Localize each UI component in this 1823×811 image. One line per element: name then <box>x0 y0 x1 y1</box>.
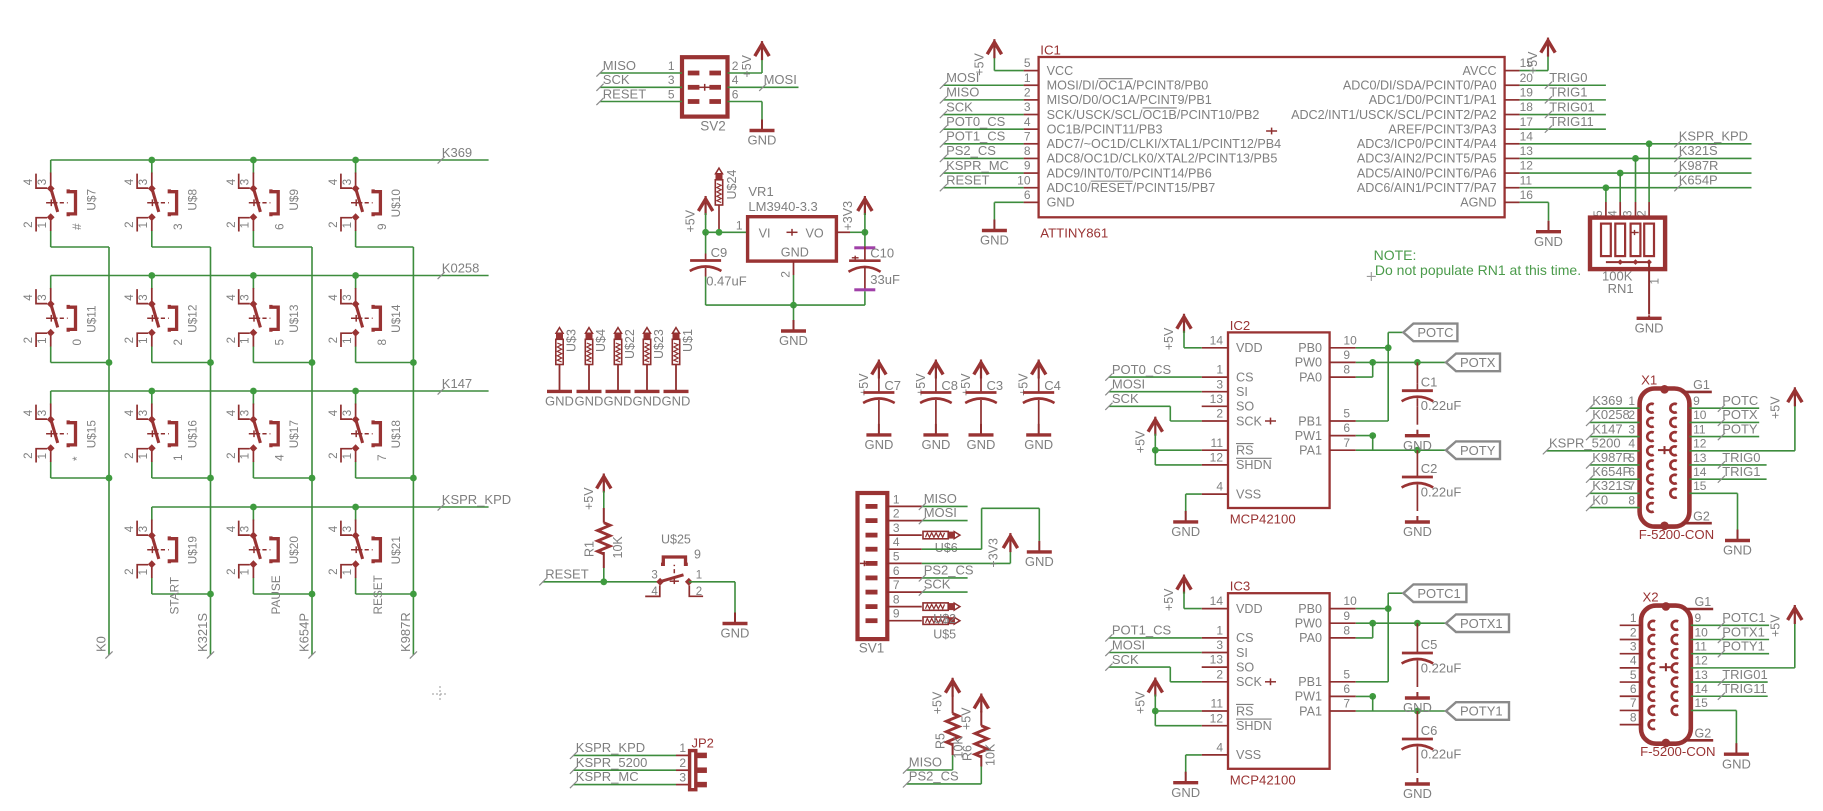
svg-text:+5V: +5V <box>931 691 945 714</box>
svg-text:U$13: U$13 <box>287 304 301 333</box>
svg-text:IC1: IC1 <box>1040 43 1061 58</box>
svg-text:GND: GND <box>1025 554 1054 569</box>
svg-text:14: 14 <box>1693 465 1707 479</box>
svg-text:TRIG11: TRIG11 <box>1549 114 1594 129</box>
svg-text:KSPR_5200: KSPR_5200 <box>576 755 648 770</box>
svg-text:6: 6 <box>893 564 900 578</box>
svg-text:1: 1 <box>668 59 675 73</box>
svg-text:9: 9 <box>375 223 389 230</box>
svg-text:6: 6 <box>1343 682 1350 696</box>
svg-text:SCK: SCK <box>1236 414 1262 428</box>
svg-text:8: 8 <box>1343 363 1350 377</box>
svg-text:ADC3/AIN2/PCINT5/PA5: ADC3/AIN2/PCINT5/PA5 <box>1357 152 1497 166</box>
svg-text:X1: X1 <box>1641 373 1657 388</box>
svg-text:GND: GND <box>781 245 809 259</box>
svg-text:+5V: +5V <box>684 209 698 232</box>
svg-text:X2: X2 <box>1643 590 1659 605</box>
svg-text:ADC6/AIN1/PCINT7/PA7: ADC6/AIN1/PCINT7/PA7 <box>1357 181 1497 195</box>
svg-text:TRIG01: TRIG01 <box>1549 99 1595 114</box>
svg-text:CS: CS <box>1236 370 1254 384</box>
svg-text:KSPR_MC: KSPR_MC <box>576 769 639 784</box>
svg-text:R1: R1 <box>583 541 597 557</box>
svg-text:8: 8 <box>893 593 900 607</box>
svg-text:PA1: PA1 <box>1299 444 1322 458</box>
svg-text:GND: GND <box>748 133 777 148</box>
svg-text:RESET: RESET <box>545 566 588 581</box>
svg-text:8: 8 <box>1343 624 1350 638</box>
svg-text:#: # <box>70 223 84 230</box>
svg-text:CS: CS <box>1236 631 1254 645</box>
svg-text:POT0_CS: POT0_CS <box>1112 362 1172 377</box>
svg-text:10K: 10K <box>611 536 625 559</box>
svg-text:ADC8/OC1D/CLK0/XTAL2/PCINT13/P: ADC8/OC1D/CLK0/XTAL2/PCINT13/PB5 <box>1047 152 1278 166</box>
svg-text:U$8: U$8 <box>185 189 199 211</box>
svg-text:PA0: PA0 <box>1299 370 1322 384</box>
svg-text:2: 2 <box>732 59 739 73</box>
svg-text:+5V: +5V <box>582 487 596 510</box>
svg-text:PW1: PW1 <box>1295 690 1322 704</box>
svg-text:VDD: VDD <box>1236 602 1263 616</box>
svg-text:+5V: +5V <box>1133 430 1147 453</box>
svg-text:TRIG0: TRIG0 <box>1549 70 1587 85</box>
svg-text:U$17: U$17 <box>287 420 301 448</box>
svg-text:K369: K369 <box>1592 393 1622 408</box>
svg-text:GND: GND <box>1047 196 1075 210</box>
svg-text:7: 7 <box>1630 696 1637 710</box>
svg-text:4: 4 <box>651 586 658 598</box>
svg-text:ATTINY861: ATTINY861 <box>1040 226 1108 241</box>
svg-text:PW1: PW1 <box>1295 429 1322 443</box>
svg-text:GND: GND <box>921 437 950 452</box>
svg-text:MOSI: MOSI <box>1112 637 1145 652</box>
svg-text:SCK: SCK <box>924 577 951 592</box>
svg-text:2: 2 <box>893 507 900 521</box>
svg-text:RESET: RESET <box>603 86 646 101</box>
svg-text:5: 5 <box>273 339 287 346</box>
svg-text:SCK/USCK/SCL/OC1B/PCINT10/PB2: SCK/USCK/SCL/OC1B/PCINT10/PB2 <box>1047 108 1260 122</box>
svg-text:KSPR_MC: KSPR_MC <box>946 158 1009 173</box>
svg-text:12: 12 <box>1520 159 1534 173</box>
svg-text:MOSI: MOSI <box>1112 377 1145 392</box>
svg-text:K369: K369 <box>442 145 472 160</box>
svg-text:TRIG0: TRIG0 <box>1722 450 1760 465</box>
svg-text:GND: GND <box>1534 234 1563 249</box>
svg-text:C10: C10 <box>870 246 894 261</box>
svg-text:C6: C6 <box>1421 723 1438 738</box>
svg-text:U$3: U$3 <box>565 329 579 352</box>
svg-text:10: 10 <box>1343 594 1357 608</box>
svg-text:PB1: PB1 <box>1298 414 1322 428</box>
svg-text:1: 1 <box>893 492 900 506</box>
svg-text:U$19: U$19 <box>185 536 199 564</box>
svg-text:1: 1 <box>1650 278 1662 284</box>
svg-text:1: 1 <box>1628 394 1635 408</box>
svg-text:+5V: +5V <box>1526 51 1540 74</box>
svg-text:6: 6 <box>1630 682 1637 696</box>
svg-text:K654P: K654P <box>1592 464 1631 479</box>
svg-text:*: * <box>70 456 84 461</box>
svg-text:2: 2 <box>696 586 702 598</box>
svg-text:6: 6 <box>273 223 287 230</box>
svg-text:GND: GND <box>1403 524 1432 539</box>
svg-text:SCK: SCK <box>1112 391 1139 406</box>
svg-text:1: 1 <box>1216 363 1223 377</box>
svg-text:GND: GND <box>864 437 893 452</box>
svg-text:GND: GND <box>1171 785 1200 800</box>
svg-text:14: 14 <box>1210 594 1224 608</box>
svg-text:SI: SI <box>1236 385 1248 399</box>
svg-text:K654P: K654P <box>1679 173 1718 188</box>
svg-text:11: 11 <box>1520 173 1533 187</box>
svg-text:U$2: U$2 <box>933 612 956 626</box>
svg-text:GND: GND <box>1722 756 1751 771</box>
svg-text:GND: GND <box>633 394 662 409</box>
svg-text:SO: SO <box>1236 400 1254 414</box>
svg-text:4: 4 <box>1024 115 1031 129</box>
svg-text:VR1: VR1 <box>748 184 773 199</box>
svg-text:0.22uF: 0.22uF <box>1421 485 1462 500</box>
svg-text:1: 1 <box>1630 611 1637 625</box>
svg-text:SHDN: SHDN <box>1236 458 1272 472</box>
svg-text:K147: K147 <box>1592 421 1622 436</box>
svg-text:PW0: PW0 <box>1295 356 1322 370</box>
svg-text:19: 19 <box>1520 85 1534 99</box>
svg-text:KSPR_KPD: KSPR_KPD <box>576 740 645 755</box>
svg-text:ADC7/~OC1D/CLKI/XTAL1/PCINT12/: ADC7/~OC1D/CLKI/XTAL1/PCINT12/PB4 <box>1047 137 1282 151</box>
svg-text:SCK: SCK <box>1112 652 1139 667</box>
svg-text:15: 15 <box>1695 696 1709 710</box>
svg-text:AVCC: AVCC <box>1463 64 1497 78</box>
svg-text:G1: G1 <box>1695 595 1712 609</box>
svg-text:13: 13 <box>1695 668 1709 682</box>
svg-text:ADC10/RESET/PCINT15/PB7: ADC10/RESET/PCINT15/PB7 <box>1047 181 1216 195</box>
svg-text:13: 13 <box>1520 144 1534 158</box>
svg-text:0.22uF: 0.22uF <box>1421 398 1462 413</box>
svg-text:12: 12 <box>1210 711 1224 725</box>
svg-text:POTY1: POTY1 <box>1722 638 1765 653</box>
svg-text:AREF/PCINT3/PA3: AREF/PCINT3/PA3 <box>1388 122 1496 136</box>
svg-text:NOTE:: NOTE: <box>1374 247 1417 263</box>
svg-text:U$10: U$10 <box>389 189 403 218</box>
svg-text:KSPR_KPD: KSPR_KPD <box>442 492 511 507</box>
svg-text:K0258: K0258 <box>442 260 480 275</box>
svg-text:PB0: PB0 <box>1298 602 1322 616</box>
svg-text:3: 3 <box>668 73 675 87</box>
svg-text:KSPR_5200: KSPR_5200 <box>1549 436 1621 451</box>
svg-text:9: 9 <box>1695 611 1702 625</box>
svg-text:3: 3 <box>1216 638 1223 652</box>
svg-text:4: 4 <box>1630 654 1637 668</box>
svg-text:5: 5 <box>893 549 900 563</box>
svg-text:K0258: K0258 <box>1592 407 1630 422</box>
svg-text:U$11: U$11 <box>84 305 98 332</box>
svg-text:U$20: U$20 <box>287 536 301 565</box>
svg-text:5: 5 <box>1630 668 1637 682</box>
svg-text:IC3: IC3 <box>1230 579 1251 594</box>
svg-text:K147: K147 <box>442 376 472 391</box>
svg-text:PB0: PB0 <box>1298 341 1322 355</box>
svg-text:ADC3/ICP0/PCINT4/PA4: ADC3/ICP0/PCINT4/PA4 <box>1357 137 1497 151</box>
svg-text:C5: C5 <box>1421 637 1438 652</box>
svg-text:PA1: PA1 <box>1299 704 1322 718</box>
svg-text:C7: C7 <box>884 378 901 393</box>
svg-text:2: 2 <box>778 271 792 278</box>
svg-text:MOSI/DI/OC1A/PCINT8/PB0: MOSI/DI/OC1A/PCINT8/PB0 <box>1047 79 1209 93</box>
svg-text:PB1: PB1 <box>1298 675 1322 689</box>
svg-text:U$7: U$7 <box>84 189 98 211</box>
svg-text:5: 5 <box>1024 56 1031 70</box>
svg-text:MISO: MISO <box>946 85 979 100</box>
svg-text:POTX1: POTX1 <box>1722 624 1765 639</box>
svg-text:1: 1 <box>171 454 185 461</box>
svg-text:8: 8 <box>375 339 389 346</box>
svg-text:VSS: VSS <box>1236 487 1261 501</box>
svg-text:K987R: K987R <box>1679 158 1719 173</box>
svg-text:PS2_CS: PS2_CS <box>924 563 974 578</box>
svg-text:+5V: +5V <box>972 52 986 75</box>
svg-text:POT1_CS: POT1_CS <box>946 129 1006 144</box>
svg-text:0.22uF: 0.22uF <box>1421 747 1462 762</box>
svg-text:2: 2 <box>171 339 185 346</box>
svg-text:+5V: +5V <box>1133 691 1147 714</box>
svg-text:F-5200-CON: F-5200-CON <box>1639 527 1714 542</box>
svg-text:PS2_CS: PS2_CS <box>909 769 959 784</box>
svg-text:9: 9 <box>893 607 900 621</box>
svg-text:ADC1/D0/PCINT1/PA1: ADC1/D0/PCINT1/PA1 <box>1369 93 1497 107</box>
svg-text:RESET: RESET <box>371 575 385 614</box>
svg-text:C3: C3 <box>987 378 1004 393</box>
svg-text:POT0_CS: POT0_CS <box>946 114 1006 129</box>
svg-text:U$18: U$18 <box>389 420 403 449</box>
svg-text:10: 10 <box>1695 625 1709 639</box>
svg-text:7: 7 <box>1343 436 1350 450</box>
svg-text:SO: SO <box>1236 660 1254 674</box>
svg-text:MISO: MISO <box>603 58 636 73</box>
svg-text:MISO: MISO <box>909 755 942 770</box>
svg-text:5: 5 <box>668 87 675 101</box>
svg-text:U$23: U$23 <box>652 329 666 359</box>
svg-text:3: 3 <box>651 569 657 581</box>
svg-text:9: 9 <box>694 548 701 562</box>
svg-text:10: 10 <box>1693 408 1707 422</box>
svg-text:1: 1 <box>696 569 702 581</box>
svg-text:SV1: SV1 <box>859 641 885 656</box>
svg-text:POTX1: POTX1 <box>1460 616 1503 631</box>
svg-text:GND: GND <box>1403 786 1432 801</box>
svg-text:13: 13 <box>1693 451 1707 465</box>
svg-text:ADC5/AIN0/PCINT6/PA6: ADC5/AIN0/PCINT6/PA6 <box>1357 166 1497 180</box>
svg-text:3: 3 <box>679 770 686 784</box>
svg-text:33uF: 33uF <box>870 272 900 287</box>
svg-text:IC2: IC2 <box>1230 318 1251 333</box>
svg-text:4: 4 <box>273 454 287 461</box>
svg-text:F-5200-CON: F-5200-CON <box>1640 744 1715 759</box>
svg-text:ADC2/INT1/USCK/SCL/PCINT2/PA2: ADC2/INT1/USCK/SCL/PCINT2/PA2 <box>1291 108 1497 122</box>
svg-text:C2: C2 <box>1421 461 1438 476</box>
svg-text:2: 2 <box>679 756 686 770</box>
svg-text:2: 2 <box>1216 667 1223 681</box>
svg-text:VI: VI <box>759 226 771 240</box>
svg-text:JP2: JP2 <box>692 736 714 751</box>
svg-text:RESET: RESET <box>946 173 989 188</box>
svg-text:K0: K0 <box>94 636 109 652</box>
svg-text:ADC9/INT0/T0/PCINT14/PB6: ADC9/INT0/T0/PCINT14/PB6 <box>1047 166 1212 180</box>
svg-text:VSS: VSS <box>1236 748 1261 762</box>
svg-text:3: 3 <box>1630 639 1637 653</box>
svg-text:POTX: POTX <box>1722 407 1758 422</box>
svg-text:10: 10 <box>1343 333 1357 347</box>
svg-text:GND: GND <box>1723 543 1752 558</box>
svg-text:POTC1: POTC1 <box>1722 610 1765 625</box>
svg-text:G2: G2 <box>1695 727 1712 741</box>
svg-text:+5V: +5V <box>1769 614 1783 637</box>
svg-text:12: 12 <box>1210 451 1224 465</box>
svg-text:17: 17 <box>1520 115 1534 129</box>
svg-text:RS: RS <box>1236 444 1254 458</box>
svg-text:RS: RS <box>1236 704 1254 718</box>
svg-text:GND: GND <box>779 333 808 348</box>
svg-text:POTX: POTX <box>1460 355 1496 370</box>
svg-text:GND: GND <box>1171 524 1200 539</box>
svg-text:U$24: U$24 <box>725 170 739 200</box>
svg-text:1: 1 <box>679 741 686 755</box>
svg-text:2: 2 <box>1630 625 1637 639</box>
svg-text:14: 14 <box>1695 682 1709 696</box>
svg-text:U$5: U$5 <box>933 627 956 641</box>
svg-text:PW0: PW0 <box>1295 617 1322 631</box>
svg-text:18: 18 <box>1520 100 1534 114</box>
svg-text:PS2_CS: PS2_CS <box>946 143 996 158</box>
svg-text:11: 11 <box>1211 436 1224 450</box>
svg-text:U$22: U$22 <box>623 329 637 359</box>
svg-text:+5V: +5V <box>1162 588 1176 611</box>
svg-text:1: 1 <box>1024 71 1031 85</box>
svg-text:GND: GND <box>545 394 574 409</box>
svg-text:SCK: SCK <box>1236 675 1262 689</box>
svg-text:7: 7 <box>893 578 900 592</box>
svg-text:OC1B/PCINT11/PB3: OC1B/PCINT11/PB3 <box>1047 122 1163 136</box>
svg-text:K0: K0 <box>1592 492 1608 507</box>
svg-text:+5V: +5V <box>1162 327 1176 350</box>
svg-text:TRIG1: TRIG1 <box>1549 85 1587 100</box>
svg-text:AGND: AGND <box>1460 196 1496 210</box>
svg-text:GND: GND <box>575 394 604 409</box>
svg-text:8: 8 <box>1630 710 1637 724</box>
svg-text:MISO/D0/OC1A/PCINT9/PB1: MISO/D0/OC1A/PCINT9/PB1 <box>1047 93 1212 107</box>
svg-text:12: 12 <box>1695 654 1709 668</box>
svg-text:SCK: SCK <box>946 99 973 114</box>
svg-text:K321S: K321S <box>1592 478 1631 493</box>
svg-text:R6: R6 <box>960 745 974 761</box>
svg-text:ADC0/DI/SDA/PCINT0/PA0: ADC0/DI/SDA/PCINT0/PA0 <box>1343 79 1497 93</box>
svg-text:11: 11 <box>1211 697 1224 711</box>
svg-text:START: START <box>167 577 181 615</box>
svg-text:POTY: POTY <box>1460 443 1496 458</box>
svg-text:11: 11 <box>1693 422 1706 436</box>
svg-text:GND: GND <box>1024 437 1053 452</box>
svg-text:11: 11 <box>1695 639 1708 653</box>
svg-text:1: 1 <box>1216 624 1223 638</box>
svg-text:VDD: VDD <box>1236 341 1263 355</box>
svg-text:POT1_CS: POT1_CS <box>1112 623 1172 638</box>
svg-text:C9: C9 <box>711 245 728 260</box>
svg-text:U$25: U$25 <box>661 533 691 547</box>
svg-text:+3V3: +3V3 <box>841 201 855 231</box>
svg-text:5: 5 <box>1343 407 1350 421</box>
svg-text:6: 6 <box>1343 421 1350 435</box>
svg-text:G1: G1 <box>1693 378 1710 392</box>
svg-text:13: 13 <box>1210 392 1224 406</box>
svg-text:U$15: U$15 <box>84 420 98 449</box>
svg-text:Do not populate RN1 at this ti: Do not populate RN1 at this time. <box>1375 262 1581 278</box>
svg-text:7: 7 <box>1343 697 1350 711</box>
svg-text:14: 14 <box>1520 129 1534 143</box>
svg-text:GND: GND <box>1635 321 1664 336</box>
svg-text:U$1: U$1 <box>681 329 695 352</box>
svg-text:U$9: U$9 <box>287 189 301 211</box>
svg-text:K987R: K987R <box>1592 450 1632 465</box>
svg-text:POTC1: POTC1 <box>1417 586 1460 601</box>
svg-text:LM3940-3.3: LM3940-3.3 <box>748 199 817 214</box>
svg-text:MOSI: MOSI <box>924 505 957 520</box>
svg-text:2: 2 <box>1216 407 1223 421</box>
svg-text:U$4: U$4 <box>594 329 608 352</box>
svg-text:4: 4 <box>1216 741 1223 755</box>
svg-text:C8: C8 <box>941 378 958 393</box>
svg-text:8: 8 <box>1628 493 1635 507</box>
svg-text:VO: VO <box>806 226 824 240</box>
svg-text:TRIG01: TRIG01 <box>1722 667 1768 682</box>
svg-text:9: 9 <box>1343 348 1350 362</box>
svg-text:MCP42100: MCP42100 <box>1230 772 1296 787</box>
svg-text:13: 13 <box>1210 653 1224 667</box>
svg-text:GND: GND <box>604 394 633 409</box>
svg-text:GND: GND <box>721 626 750 641</box>
svg-text:5: 5 <box>1343 667 1350 681</box>
svg-text:+5V: +5V <box>959 707 973 730</box>
svg-text:MCP42100: MCP42100 <box>1230 512 1296 527</box>
svg-text:3: 3 <box>171 223 185 230</box>
svg-text:MISO: MISO <box>924 491 957 506</box>
svg-text:9: 9 <box>1024 159 1031 173</box>
svg-text:+5V: +5V <box>740 54 754 77</box>
svg-text:K987R: K987R <box>398 612 413 652</box>
svg-text:SHDN: SHDN <box>1236 719 1272 733</box>
svg-text:7: 7 <box>375 454 389 461</box>
svg-text:GND: GND <box>967 437 996 452</box>
svg-text:+3V3: +3V3 <box>986 538 1000 568</box>
svg-text:0.22uF: 0.22uF <box>1421 661 1462 676</box>
svg-text:15: 15 <box>1693 479 1707 493</box>
svg-text:8: 8 <box>1024 144 1031 158</box>
svg-text:1: 1 <box>736 219 743 233</box>
svg-text:4: 4 <box>1628 437 1635 451</box>
svg-text:SI: SI <box>1236 646 1248 660</box>
svg-text:TRIG11: TRIG11 <box>1722 681 1767 696</box>
svg-text:+5V: +5V <box>1769 396 1783 419</box>
svg-text:PA0: PA0 <box>1299 631 1322 645</box>
svg-text:RN1: RN1 <box>1608 281 1634 296</box>
svg-text:2: 2 <box>1024 85 1031 99</box>
svg-text:3: 3 <box>1216 377 1223 391</box>
svg-text:R5: R5 <box>933 733 947 749</box>
svg-text:VCC: VCC <box>1047 64 1074 78</box>
svg-text:12: 12 <box>1693 437 1707 451</box>
svg-text:3: 3 <box>1628 422 1635 436</box>
svg-text:K321S: K321S <box>195 613 210 652</box>
svg-text:U$14: U$14 <box>389 304 403 333</box>
svg-text:C4: C4 <box>1044 378 1061 393</box>
